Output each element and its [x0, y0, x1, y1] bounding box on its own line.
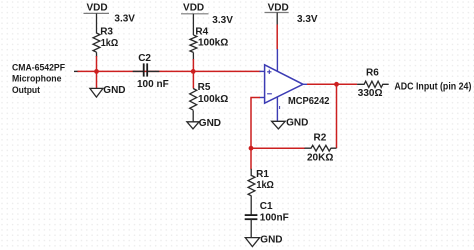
- svg-text:GND: GND: [103, 85, 125, 96]
- wire R5 bottom to GND2: [192, 110, 194, 122]
- svg-text:1kΩ: 1kΩ: [256, 180, 274, 191]
- wire - input stub (blue): [260, 97, 265, 99]
- port label CMA-6542PF Microphone Output: [12, 63, 65, 96]
- wire output net (red): [307, 83, 357, 85]
- wire R3 bottom (black then red) to node and GND stem: [96, 52, 98, 57]
- svg-text:100kΩ: 100kΩ: [198, 94, 228, 105]
- wire VDD3 to op-amp power (red): [276, 25, 278, 50]
- wire output stub (blue): [303, 83, 308, 85]
- svg-text:R6: R6: [366, 68, 379, 79]
- node VDD1 symbol: [84, 2, 110, 33]
- wire feedback vertical (red): [336, 84, 338, 148]
- svg-text:GND: GND: [286, 117, 308, 128]
- wire main mic output net: [74, 70, 261, 72]
- wire op-amp V- pin stub to ground (blue): [276, 97, 278, 122]
- node junction mic/R3: [94, 69, 99, 74]
- resistor R2: [305, 145, 337, 151]
- svg-text:GND: GND: [199, 118, 221, 129]
- svg-text:C2: C2: [138, 53, 151, 64]
- svg-text:3.3V: 3.3V: [212, 15, 233, 26]
- ground GND4: [245, 235, 282, 247]
- wire + input stub (blue): [260, 70, 265, 72]
- svg-text:R4: R4: [195, 26, 208, 37]
- svg-text:3.3V: 3.3V: [297, 14, 318, 25]
- wire R1 to C1: [250, 196, 252, 215]
- svg-text:VDD: VDD: [268, 2, 289, 13]
- svg-text:Output: Output: [12, 85, 41, 96]
- svg-text:330Ω: 330Ω: [358, 88, 383, 99]
- resistor R4: [190, 35, 197, 52]
- resistor R1: [248, 176, 255, 196]
- capacitor C2: [144, 63, 148, 76]
- svg-text:Microphone: Microphone: [12, 74, 62, 85]
- wire op-amp V+ pin stub (blue): [276, 49, 278, 71]
- node VDD2 symbol: [181, 2, 209, 35]
- resistor R6: [357, 81, 389, 87]
- op-amp U1 MCP6242: [265, 65, 303, 103]
- svg-text:100 nF: 100 nF: [137, 79, 169, 90]
- svg-text:CMA-6542PF: CMA-6542PF: [12, 63, 65, 74]
- svg-text:1kΩ: 1kΩ: [101, 38, 119, 49]
- svg-text:R3: R3: [100, 26, 113, 37]
- svg-text:VDD: VDD: [183, 2, 204, 13]
- node VDD3 symbol: [265, 2, 289, 24]
- svg-text:R5: R5: [198, 82, 211, 93]
- ground GND2: [187, 118, 221, 129]
- wire C1 to GND4: [250, 219, 252, 238]
- wire R4 bottom to node: [192, 52, 194, 60]
- resistor R5: [190, 89, 197, 111]
- node junction R4/R5: [191, 69, 196, 74]
- svg-text:MCP6242: MCP6242: [288, 96, 330, 107]
- capacitor C1: [245, 215, 258, 219]
- node junction feedback/R1: [249, 146, 254, 151]
- wire into R1 (black): [250, 169, 252, 176]
- svg-text:100kΩ: 100kΩ: [198, 38, 228, 49]
- svg-text:20KΩ: 20KΩ: [307, 152, 333, 163]
- svg-text:C1: C1: [260, 201, 273, 212]
- svg-text:GND: GND: [260, 235, 282, 246]
- node junction output/feedback: [334, 82, 339, 87]
- wire R1 branch (red): [250, 148, 252, 169]
- pin 4 tick: [279, 106, 281, 109]
- svg-text:R1: R1: [256, 169, 269, 180]
- ground GND1: [90, 85, 126, 97]
- svg-text:ADC Input (pin 24): ADC Input (pin 24): [394, 82, 471, 93]
- wire - input feedback (red): [251, 98, 260, 149]
- resistor R3: [93, 33, 100, 52]
- wire feedback bottom (red): [251, 147, 305, 149]
- svg-text:3.3V: 3.3V: [114, 14, 135, 25]
- ground GND3: [272, 117, 309, 129]
- svg-text:R2: R2: [314, 133, 327, 144]
- svg-text:100nF: 100nF: [260, 213, 289, 224]
- svg-text:VDD: VDD: [86, 2, 107, 13]
